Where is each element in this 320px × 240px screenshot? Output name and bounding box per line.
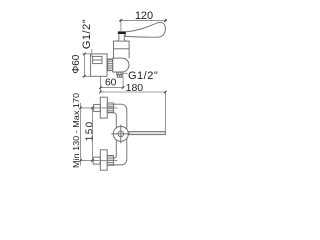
svg-text:Min 130 - Max 170: Min 130 - Max 170	[72, 92, 81, 168]
svg-text:120: 120	[135, 10, 153, 22]
svg-text:Φ60: Φ60	[71, 54, 82, 74]
svg-text:G1/2": G1/2"	[128, 70, 158, 82]
svg-text:60: 60	[105, 78, 117, 89]
svg-text:G1/2": G1/2"	[81, 19, 93, 49]
svg-text:150: 150	[85, 120, 96, 141]
svg-text:180: 180	[126, 82, 144, 94]
